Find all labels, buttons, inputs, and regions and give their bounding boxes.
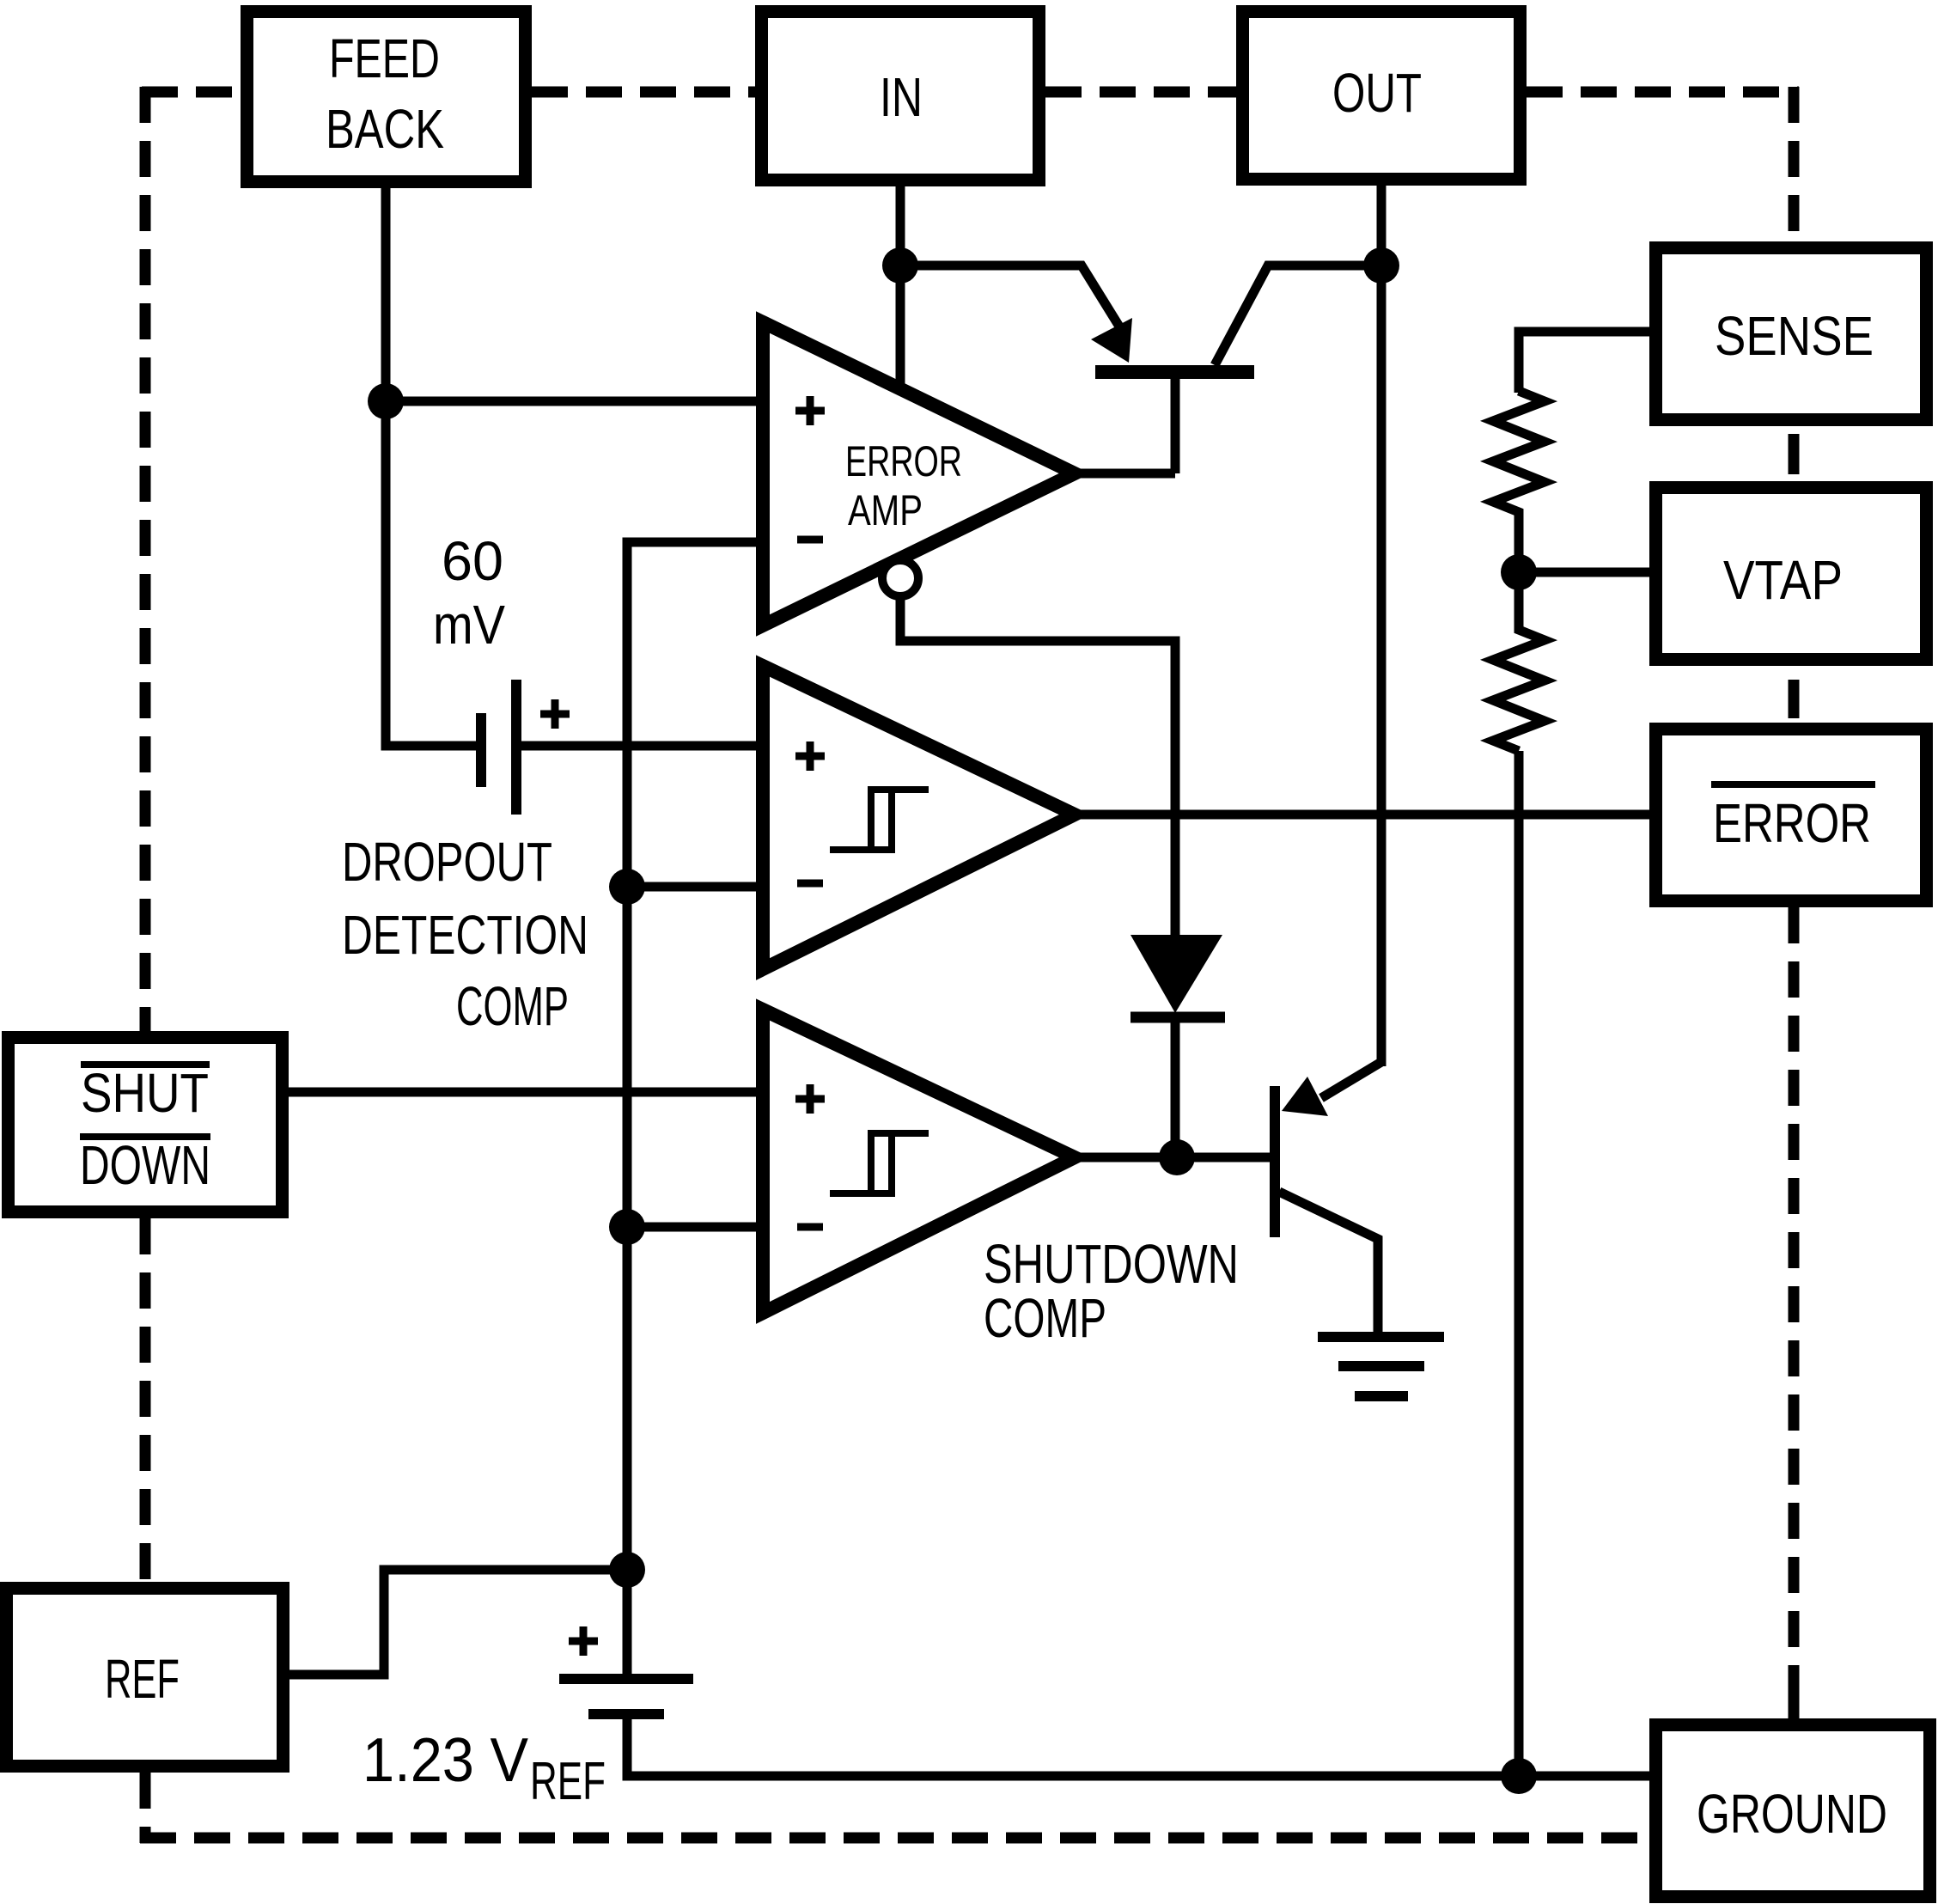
svg-text:REF: REF [530, 1752, 606, 1811]
svg-text:IN: IN [880, 67, 923, 128]
svg-text:60: 60 [442, 530, 503, 592]
svg-text:DETECTION: DETECTION [342, 905, 588, 967]
svg-text:SENSE: SENSE [1715, 305, 1874, 367]
svg-text:GROUND: GROUND [1697, 1784, 1887, 1845]
svg-text:1.23 V: 1.23 V [363, 1725, 528, 1795]
svg-text:OUT: OUT [1332, 63, 1422, 125]
svg-text:SHUTDOWN: SHUTDOWN [984, 1234, 1239, 1295]
svg-text:SHUT: SHUT [81, 1062, 209, 1124]
svg-text:BACK: BACK [326, 99, 444, 160]
svg-text:FEED: FEED [329, 29, 440, 90]
svg-text:DOWN: DOWN [80, 1134, 210, 1195]
svg-text:AMP: AMP [848, 486, 923, 534]
svg-text:REF: REF [105, 1648, 180, 1711]
svg-text:COMP: COMP [456, 975, 569, 1037]
svg-text:mV: mV [433, 595, 505, 656]
svg-text:DROPOUT: DROPOUT [342, 832, 552, 894]
svg-text:VTAP: VTAP [1723, 549, 1843, 611]
svg-text:ERROR: ERROR [845, 438, 962, 485]
svg-text:COMP: COMP [984, 1287, 1106, 1348]
svg-text:ERROR: ERROR [1713, 794, 1871, 855]
